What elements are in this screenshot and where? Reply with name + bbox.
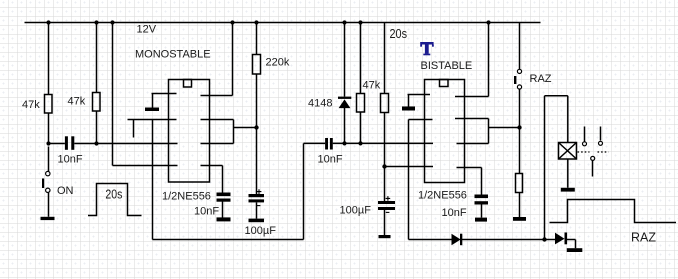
svg-text:220k: 220k [266, 57, 290, 69]
svg-text:MONOSTABLE: MONOSTABLE [135, 49, 211, 61]
svg-text:1/2NE556: 1/2NE556 [162, 191, 211, 203]
svg-text:1/2NE556: 1/2NE556 [418, 190, 467, 202]
svg-text:10nF: 10nF [318, 153, 343, 165]
svg-text:4148: 4148 [308, 98, 332, 110]
svg-text:RAZ: RAZ [530, 73, 552, 85]
svg-text:12V: 12V [137, 24, 157, 36]
svg-text:100µF: 100µF [245, 225, 277, 237]
svg-text:47k: 47k [22, 99, 40, 111]
svg-text:20s: 20s [105, 187, 122, 201]
svg-text:RAZ: RAZ [631, 231, 656, 245]
svg-text:100µF: 100µF [340, 205, 372, 217]
svg-text:ON: ON [57, 185, 74, 197]
svg-text:BISTABLE: BISTABLE [421, 60, 473, 72]
svg-text:20s: 20s [390, 26, 408, 41]
svg-text:47k: 47k [68, 96, 86, 108]
svg-text:10nF: 10nF [442, 207, 467, 219]
svg-text:47k: 47k [363, 80, 381, 92]
svg-text:10nF: 10nF [58, 153, 83, 165]
svg-text:10nF: 10nF [194, 206, 219, 218]
